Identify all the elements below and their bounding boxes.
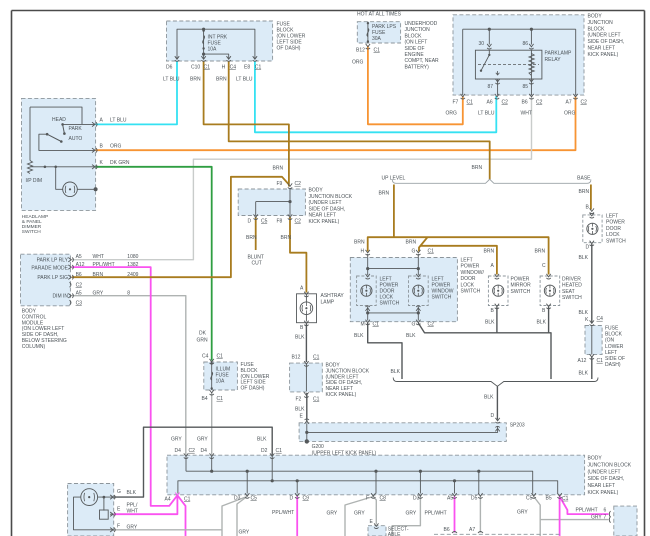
svg-text:GRY: GRY (354, 511, 365, 517)
svg-text:D2: D2 (261, 448, 268, 454)
svg-text:BLK: BLK (257, 437, 267, 443)
svg-text:C4: C4 (202, 353, 209, 359)
svg-text:(UNDER LEFT: (UNDER LEFT (588, 469, 621, 475)
svg-text:BODY: BODY (588, 14, 603, 20)
svg-text:87: 87 (488, 84, 494, 90)
svg-text:POWER: POWER (461, 264, 480, 270)
svg-text:D4: D4 (201, 448, 208, 454)
svg-text:BLK: BLK (579, 371, 589, 377)
svg-text:D: D (290, 496, 294, 502)
svg-text:F8: F8 (277, 218, 283, 224)
svg-text:BATTERY): BATTERY) (405, 64, 430, 70)
svg-text:OF DASH): OF DASH) (241, 386, 265, 392)
svg-text:A7: A7 (566, 100, 572, 106)
svg-text:RELAY: RELAY (545, 57, 562, 63)
svg-text:BLK: BLK (295, 335, 305, 341)
svg-text:BLOCK: BLOCK (605, 332, 623, 338)
svg-text:SIDE OF: SIDE OF (605, 356, 625, 362)
svg-text:LT BLU: LT BLU (163, 77, 180, 83)
svg-text:F: F (117, 524, 120, 530)
svg-text:F: F (366, 496, 369, 502)
svg-text:BODY: BODY (309, 188, 324, 194)
svg-text:A5: A5 (76, 290, 82, 296)
svg-text:LEFT: LEFT (605, 350, 617, 356)
svg-text:SWITCH: SWITCH (511, 289, 531, 295)
svg-text:BLK: BLK (127, 490, 137, 496)
svg-text:GRY: GRY (517, 510, 528, 516)
svg-text:B6: B6 (76, 272, 82, 278)
svg-text:WHT: WHT (521, 111, 532, 117)
svg-text:NEAR LEFT: NEAR LEFT (309, 213, 337, 219)
svg-text:DIM IN: DIM IN (52, 294, 68, 300)
svg-text:DK: DK (199, 331, 207, 337)
svg-text:C: C (542, 263, 546, 269)
svg-text:G200: G200 (312, 444, 324, 450)
svg-text:F2: F2 (296, 396, 302, 402)
svg-text:HEATED: HEATED (562, 283, 582, 289)
svg-text:KICK PANEL): KICK PANEL) (326, 392, 357, 398)
svg-text:KICK PANEL): KICK PANEL) (309, 219, 340, 225)
svg-text:SWITCH: SWITCH (432, 295, 452, 301)
svg-text:A7: A7 (469, 527, 475, 533)
svg-text:BLK: BLK (406, 333, 416, 339)
svg-text:ASHTRAY: ASHTRAY (321, 293, 345, 299)
svg-text:D5: D5 (471, 496, 478, 502)
svg-text:D3: D3 (413, 496, 420, 502)
svg-text:ORG: ORG (446, 111, 458, 117)
svg-text:B5: B5 (546, 496, 552, 502)
svg-text:BRN: BRN (216, 77, 227, 83)
svg-text:BLOCK: BLOCK (405, 33, 423, 39)
svg-text:SWITCH: SWITCH (606, 238, 626, 244)
svg-text:(UNDER LEFT: (UNDER LEFT (309, 200, 342, 206)
svg-text:MIRROR: MIRROR (511, 283, 532, 289)
svg-text:JUNCTION BLOCK: JUNCTION BLOCK (588, 462, 632, 468)
svg-text:F7: F7 (453, 100, 459, 106)
svg-text:B6: B6 (444, 527, 450, 533)
svg-text:LAMP: LAMP (321, 300, 335, 306)
svg-text:G: G (117, 489, 121, 495)
svg-text:BLK: BLK (295, 406, 305, 412)
svg-text:POWER: POWER (511, 277, 530, 283)
svg-text:PARK LP RLY: PARK LP RLY (37, 258, 69, 264)
svg-text:A4: A4 (165, 497, 171, 503)
svg-text:D: D (248, 218, 252, 224)
svg-text:(ON LEFT: (ON LEFT (405, 40, 428, 46)
svg-text:WHT: WHT (127, 509, 138, 515)
svg-text:D: D (491, 413, 495, 419)
svg-text:BRN: BRN (379, 191, 390, 197)
svg-text:PARKLAMP: PARKLAMP (545, 51, 573, 57)
svg-text:LEFT: LEFT (606, 214, 618, 220)
svg-text:A12: A12 (578, 358, 587, 364)
svg-text:BLK: BLK (537, 320, 547, 326)
svg-text:JUNCTION: JUNCTION (405, 27, 431, 33)
svg-text:PARADE MODE: PARADE MODE (31, 266, 68, 272)
svg-text:OF DASH): OF DASH) (277, 46, 301, 52)
svg-text:SWITCH: SWITCH (380, 301, 400, 307)
svg-text:BRN: BRN (273, 166, 284, 172)
svg-text:I/P DIM: I/P DIM (26, 178, 43, 184)
svg-text:SWITCH: SWITCH (461, 289, 481, 295)
svg-text:BRN: BRN (281, 235, 292, 241)
svg-text:(ON: (ON (605, 338, 615, 344)
svg-text:A6: A6 (487, 100, 493, 106)
svg-text:LT BLU: LT BLU (110, 118, 127, 124)
svg-text:H: H (222, 64, 226, 70)
svg-text:BLK: BLK (579, 255, 589, 261)
svg-text:BLK: BLK (485, 320, 495, 326)
svg-text:B4: B4 (202, 396, 208, 402)
svg-text:BASE: BASE (577, 175, 591, 181)
svg-text:BLK: BLK (579, 310, 589, 316)
svg-text:H: H (361, 249, 365, 255)
svg-text:BRN: BRN (406, 240, 417, 246)
svg-text:SWITCH: SWITCH (562, 295, 582, 301)
svg-text:PPL/WHT: PPL/WHT (272, 510, 294, 516)
svg-text:BRN: BRN (190, 77, 201, 83)
svg-text:6: 6 (604, 508, 607, 514)
svg-text:PARK: PARK (69, 126, 83, 132)
svg-text:2409: 2409 (127, 272, 138, 278)
svg-text:D4: D4 (175, 448, 182, 454)
svg-text:ORG: ORG (110, 144, 122, 150)
svg-text:BRN: BRN (246, 235, 257, 241)
svg-text:LOCK: LOCK (606, 232, 620, 238)
svg-text:DOOR: DOOR (606, 226, 621, 232)
svg-text:GRY: GRY (93, 290, 104, 296)
svg-text:WHT: WHT (93, 254, 104, 260)
svg-text:ABLE: ABLE (388, 532, 401, 536)
svg-text:GRY: GRY (171, 437, 182, 443)
svg-text:8: 8 (127, 290, 130, 296)
svg-text:G: G (412, 249, 416, 255)
svg-text:86: 86 (523, 41, 529, 47)
svg-text:BLOCK: BLOCK (588, 26, 606, 32)
svg-text:SWITCH: SWITCH (22, 229, 41, 235)
svg-text:D6: D6 (166, 64, 173, 70)
svg-text:DASH): DASH) (605, 362, 621, 368)
svg-text:UP LEVEL: UP LEVEL (382, 175, 406, 181)
svg-text:7: 7 (604, 515, 607, 521)
svg-text:1382: 1382 (127, 262, 138, 268)
svg-text:LT BLU: LT BLU (478, 111, 495, 117)
svg-text:BLK: BLK (391, 369, 401, 375)
svg-text:GRY: GRY (239, 530, 250, 536)
svg-text:COMPT, NEAR: COMPT, NEAR (405, 58, 440, 64)
svg-text:SIDE OF: SIDE OF (405, 46, 425, 52)
svg-text:CUT: CUT (252, 261, 262, 267)
svg-text:WINDOW/: WINDOW/ (461, 270, 485, 276)
svg-text:GRY: GRY (127, 525, 138, 531)
svg-text:E8: E8 (244, 64, 250, 70)
svg-text:BRN: BRN (579, 189, 590, 195)
svg-text:10A: 10A (208, 47, 218, 53)
svg-text:GRY: GRY (327, 511, 338, 517)
svg-text:M: M (361, 322, 365, 328)
svg-text:1080: 1080 (127, 254, 138, 260)
svg-text:JUNCTION: JUNCTION (588, 20, 614, 26)
svg-text:B12: B12 (292, 355, 301, 361)
svg-text:DRIVER: DRIVER (562, 277, 581, 283)
svg-text:85: 85 (523, 84, 529, 90)
svg-text:C10: C10 (191, 64, 200, 70)
svg-text:F9: F9 (277, 181, 283, 187)
svg-text:GRY: GRY (406, 511, 417, 517)
svg-text:NEAR LEFT: NEAR LEFT (588, 483, 616, 489)
svg-text:ORG: ORG (352, 60, 364, 66)
svg-text:LOWER: LOWER (605, 344, 624, 350)
svg-text:GRN: GRN (197, 338, 209, 344)
svg-text:LEFT: LEFT (461, 258, 473, 264)
svg-text:BRN: BRN (472, 165, 483, 171)
svg-text:(UNDER LEFT: (UNDER LEFT (588, 33, 621, 39)
svg-text:B6: B6 (522, 100, 528, 106)
svg-text:10A: 10A (216, 379, 226, 385)
svg-text:G: G (412, 322, 416, 328)
svg-text:(UPPER LEFT KICK PANEL): (UPPER LEFT KICK PANEL) (312, 450, 377, 456)
svg-text:B12: B12 (356, 48, 365, 54)
svg-text:LOCK: LOCK (461, 282, 475, 288)
svg-text:30A: 30A (372, 36, 382, 42)
svg-text:D: D (586, 244, 590, 250)
svg-text:PPL/WHT: PPL/WHT (93, 262, 115, 268)
svg-text:PPL/WHT: PPL/WHT (425, 511, 447, 517)
svg-text:BLK: BLK (484, 395, 494, 401)
svg-text:LT BLU: LT BLU (236, 77, 253, 83)
svg-text:GRY: GRY (197, 437, 208, 443)
svg-text:HOT AT ALL TIMES: HOT AT ALL TIMES (357, 12, 402, 18)
svg-text:SIDE OF DASH,: SIDE OF DASH, (588, 39, 625, 45)
svg-text:SEAT: SEAT (562, 289, 575, 295)
svg-text:C5: C5 (526, 496, 533, 502)
svg-text:AUTO: AUTO (69, 136, 83, 142)
svg-text:DK GRN: DK GRN (110, 160, 130, 166)
svg-text:PARK LP SIG: PARK LP SIG (37, 275, 68, 281)
svg-text:UNDERHOOD: UNDERHOOD (405, 21, 438, 27)
svg-text:HEAD: HEAD (52, 117, 66, 123)
svg-text:NEAR LEFT: NEAR LEFT (588, 46, 616, 52)
svg-text:A5: A5 (447, 496, 453, 502)
svg-text:A5: A5 (76, 254, 82, 260)
svg-text:30: 30 (479, 41, 485, 47)
svg-text:A12: A12 (76, 262, 85, 268)
svg-text:COLUMN): COLUMN) (22, 344, 46, 350)
svg-text:BRN: BRN (93, 272, 104, 278)
svg-text:ORG: ORG (564, 111, 576, 117)
svg-text:DOOR: DOOR (461, 276, 476, 282)
svg-text:SP203: SP203 (510, 423, 525, 429)
svg-text:JUNCTION BLOCK: JUNCTION BLOCK (309, 194, 353, 200)
svg-text:PPL/WHT: PPL/WHT (576, 508, 598, 514)
svg-text:BRN: BRN (484, 248, 495, 254)
svg-text:BODY: BODY (588, 456, 603, 462)
svg-text:SIDE OF DASH,: SIDE OF DASH, (309, 206, 346, 212)
svg-text:SIDE OF DASH,: SIDE OF DASH, (588, 476, 625, 482)
svg-text:POWER: POWER (606, 220, 625, 226)
svg-text:KICK PANEL): KICK PANEL) (588, 490, 619, 496)
svg-text:BRN: BRN (354, 240, 365, 246)
svg-text:FUSE: FUSE (605, 326, 619, 332)
svg-text:ENGINE: ENGINE (405, 52, 425, 58)
svg-text:BLK: BLK (354, 333, 364, 339)
svg-text:BRN: BRN (535, 248, 546, 254)
svg-text:D3: D3 (234, 496, 241, 502)
svg-text:GRY: GRY (591, 515, 602, 521)
svg-text:KICK PANEL): KICK PANEL) (588, 52, 619, 58)
